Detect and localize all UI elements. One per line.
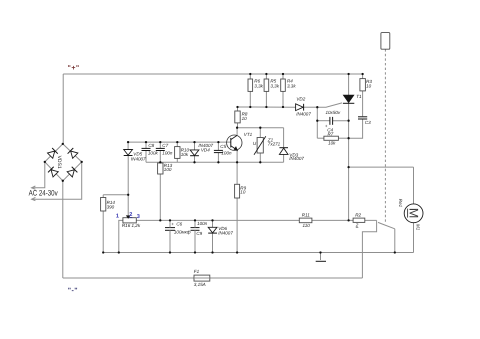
- svg-text:110: 110: [303, 223, 311, 228]
- wire left rail from plus corner down to bridge: [62, 74, 64, 144]
- svg-text:"-": "-": [68, 288, 78, 295]
- node Z1 bottom: [259, 161, 261, 163]
- wire top positive rail: [63, 73, 362, 75]
- diode VD6: [208, 220, 233, 252]
- node emitter: [236, 161, 238, 163]
- capacitor C6 electrolytic: [165, 220, 191, 252]
- svg-text:100n: 100n: [197, 221, 208, 226]
- node switch common: [394, 251, 396, 253]
- node R2 left: [347, 219, 349, 221]
- node VD5 top: [127, 141, 129, 143]
- svg-text:3,3k: 3,3k: [287, 83, 296, 88]
- node R14 bottom: [102, 251, 104, 253]
- node C4 left: [316, 120, 318, 122]
- svg-text:C5: C5: [220, 144, 226, 149]
- wire R3 to C3: [362, 91, 364, 116]
- wire bottom return with fuse: [63, 277, 363, 279]
- wire motor feed horizontal: [349, 166, 414, 168]
- bridge diode top-left: [47, 148, 57, 158]
- svg-text:3,3k: 3,3k: [270, 83, 279, 88]
- svg-text:M1: M1: [416, 224, 421, 231]
- svg-text:10: 10: [366, 83, 372, 88]
- wire emitter rail: [146, 161, 284, 163]
- svg-text:Re1: Re1: [398, 199, 403, 208]
- node R4 bottom: [282, 106, 284, 108]
- node R8 top: [236, 106, 238, 108]
- wire C3 bottom to node: [349, 119, 363, 138]
- svg-text:+: +: [171, 221, 174, 226]
- resistor R2: [353, 212, 365, 227]
- svg-text:100k: 100k: [148, 151, 159, 156]
- wire VT1 collector riser: [236, 128, 238, 136]
- wire Z1 top stub: [259, 128, 261, 138]
- svg-text:100n: 100n: [221, 151, 232, 156]
- wire R9 top from emitter rail: [236, 162, 238, 184]
- svg-text:10: 10: [242, 116, 248, 121]
- wire base rail: [128, 141, 231, 143]
- thyristor T1: [343, 94, 362, 103]
- capacitor C5: [214, 144, 232, 156]
- bridge edge top-left: [45, 144, 63, 162]
- wire R8 top stub: [237, 107, 239, 111]
- svg-text:7x271: 7x271: [268, 142, 281, 147]
- node R5 bottom: [265, 106, 267, 108]
- node C7 top: [159, 141, 161, 143]
- node bridge left: [44, 161, 46, 163]
- svg-text:VDS1: VDS1: [56, 156, 62, 169]
- node R9 bottom: [236, 251, 238, 253]
- wire R14 top stub: [102, 195, 104, 198]
- node R10 top: [176, 141, 178, 143]
- diode VD2: [296, 96, 312, 116]
- capacitor C8: [142, 143, 159, 155]
- svg-text:3,3k: 3,3k: [254, 83, 263, 88]
- wire pot pin1: [119, 220, 123, 252]
- node bridge right: [81, 161, 83, 163]
- wire R5 top stub: [265, 74, 267, 79]
- fuse F1: [194, 269, 210, 287]
- capacitor C9: [191, 220, 208, 252]
- svg-text:10k: 10k: [328, 141, 336, 146]
- capacitor C7: [156, 143, 173, 155]
- svg-text:390: 390: [107, 205, 115, 210]
- capacitor C4 electrolytic: [325, 110, 341, 133]
- node C6 top: [169, 219, 171, 221]
- node C9 top: [194, 219, 196, 221]
- wire R14 bottom to ground bus: [102, 211, 104, 253]
- wire VD2 cathode to node: [304, 106, 318, 108]
- node VD4 top: [193, 141, 195, 143]
- resistor R10: [175, 147, 190, 159]
- wire relay dashed mechanical link: [384, 49, 386, 222]
- wire C8 top stub: [145, 142, 147, 148]
- switch blade contact: [378, 222, 395, 228]
- transistor VT1: [227, 132, 253, 150]
- wire C7 bottom into R13: [159, 151, 161, 163]
- node bridge top: [62, 143, 64, 145]
- node motor tee: [347, 166, 349, 168]
- wire VD5 bottom down to R14 tee: [127, 156, 129, 195]
- bridge rectifier VDS1: [45, 144, 82, 181]
- resistor R9: [235, 184, 247, 198]
- wire collector rail: [237, 127, 284, 129]
- node R7 right: [347, 137, 349, 139]
- bridge edge bottom-right: [63, 162, 82, 181]
- node VD6 top: [211, 219, 213, 221]
- diode VD5: [124, 150, 146, 162]
- node VD6 bottom: [211, 251, 213, 253]
- svg-text:C8: C8: [148, 143, 154, 148]
- bridge diode bottom-left: [48, 167, 58, 177]
- svg-text:C3: C3: [365, 120, 371, 125]
- wire C5 bottom stub: [217, 153, 219, 163]
- node Z1 top: [259, 127, 261, 129]
- svg-text:100мкф: 100мкф: [174, 230, 191, 235]
- svg-text:3,15A: 3,15A: [194, 282, 206, 287]
- svg-text:M: M: [406, 208, 420, 218]
- node C6 bottom: [169, 251, 171, 253]
- svg-text:10: 10: [240, 190, 246, 195]
- node top rail R4: [282, 73, 284, 75]
- resistor R4: [281, 79, 297, 92]
- bridge edge bottom-left: [45, 162, 63, 181]
- resistor R7: [324, 131, 339, 145]
- resistor R14: [101, 198, 116, 212]
- svg-text:VD4: VD4: [201, 147, 210, 152]
- svg-text:10k: 10k: [181, 152, 189, 157]
- svg-text:100n: 100n: [162, 151, 173, 156]
- node top rail T1: [347, 73, 349, 75]
- wire Z1 bottom stub: [259, 153, 261, 162]
- node pot pin1 bottom: [118, 251, 120, 253]
- node top rail R3: [361, 73, 363, 75]
- svg-text:AC 24-30v: AC 24-30v: [29, 189, 58, 198]
- wire R4 top stub: [282, 74, 284, 79]
- wire R10 top stub: [176, 142, 178, 147]
- node C8 top: [145, 141, 147, 143]
- svg-text:F1: F1: [194, 269, 200, 274]
- wire R6 top stub: [249, 74, 251, 79]
- node R13 bottom: [159, 219, 161, 221]
- wire VD5 top stub: [127, 142, 129, 149]
- wire C8 bottom stub: [145, 151, 147, 163]
- wire R8 bottom stub: [237, 123, 239, 128]
- wire C4 left stub vertical: [316, 107, 318, 138]
- node VD4 bottom: [193, 161, 195, 163]
- wire motor bottom riser: [413, 223, 415, 253]
- svg-text:VD2: VD2: [296, 96, 305, 101]
- wire R3 top stub: [362, 74, 364, 79]
- wire C7 top stub: [159, 142, 161, 148]
- wire VD3 bottom stub: [283, 154, 285, 162]
- svg-text:IN4007: IN4007: [289, 156, 304, 161]
- node R6 bottom: [249, 106, 251, 108]
- wire C4 row right: [333, 120, 349, 122]
- wire VD3 top drop: [283, 128, 285, 148]
- ground symbol: [316, 253, 326, 262]
- svg-text:C9: C9: [196, 231, 202, 236]
- svg-text:3: 3: [137, 214, 140, 220]
- svg-text:IN4007: IN4007: [131, 157, 146, 162]
- wire T1 anode riser: [348, 74, 350, 95]
- wire C5 top stub: [217, 142, 219, 150]
- resistor R6: [248, 79, 264, 92]
- node ground: [319, 251, 321, 253]
- terminal arrow 2: [32, 197, 36, 200]
- node C4 right: [347, 120, 349, 122]
- relay armature box: [381, 33, 390, 50]
- wire R7 row left: [317, 137, 324, 139]
- resistor R13: [158, 163, 173, 174]
- svg-text:R2: R2: [355, 212, 361, 217]
- svg-text:R7: R7: [328, 131, 334, 136]
- wire R10 bottom stub: [176, 158, 178, 162]
- wire R5 bottom stub: [265, 91, 267, 107]
- svg-text:C6: C6: [176, 221, 182, 226]
- wire R14 tee to pot wiper: [127, 195, 129, 216]
- wire VT1 emitter drop: [236, 150, 238, 162]
- wire switch riser from bottom return: [362, 220, 376, 278]
- node bridge bottom: [62, 180, 64, 182]
- resistor R8: [235, 111, 248, 123]
- node C9 bottom: [194, 251, 196, 253]
- wire motor top riser: [413, 167, 415, 204]
- wire switch common riser: [394, 229, 396, 253]
- bridge edge top-right: [63, 144, 82, 162]
- wire R13 bottom to control rail: [159, 174, 161, 220]
- svg-text:VT1: VT1: [244, 132, 253, 137]
- svg-text:C7: C7: [162, 143, 168, 148]
- node C5 top: [217, 141, 219, 143]
- node C5 bottom: [217, 161, 219, 163]
- wire control rail pot pin3 to switch contact: [136, 219, 376, 221]
- wire AC input terminal 2: [32, 162, 82, 199]
- node R14 tee: [127, 194, 129, 196]
- wire bridge bottom vertex down to bottom return wire: [62, 181, 64, 278]
- svg-text:IN4007: IN4007: [218, 231, 233, 236]
- diode VD4: [190, 143, 213, 156]
- svg-text:T1: T1: [356, 94, 362, 99]
- wire thyristor gate: [317, 103, 342, 107]
- diode VD3: [279, 148, 304, 161]
- bridge diode top-right: [68, 148, 78, 158]
- wire R4 bottom stub: [282, 91, 284, 107]
- wire resistor bottom rail to VD2: [238, 106, 296, 108]
- varistor Z1: [253, 136, 281, 155]
- wire R7 row right: [338, 137, 348, 139]
- node gate junction: [316, 106, 318, 108]
- svg-text:2: 2: [355, 223, 359, 228]
- svg-text:R11: R11: [302, 212, 310, 217]
- wire T1 cathode main vertical: [348, 103, 350, 220]
- svg-text:"+": "+": [68, 65, 80, 72]
- wire R6 bottom stub: [249, 91, 251, 107]
- wire ground bus: [103, 252, 413, 254]
- node top rail R6: [249, 73, 251, 75]
- wire VD4 top stub: [194, 142, 196, 150]
- potentiometer R16: [116, 212, 141, 228]
- bridge diode bottom-right: [67, 167, 77, 177]
- terminal arrow 1: [32, 186, 36, 189]
- resistor R11: [299, 212, 312, 228]
- resistor R5: [264, 79, 280, 92]
- svg-text:10x50v: 10x50v: [326, 110, 341, 115]
- svg-text:2: 2: [129, 212, 132, 218]
- motor M1: [398, 199, 423, 231]
- capacitor C3: [358, 117, 371, 125]
- node collector: [236, 127, 238, 129]
- wire C4 row left: [317, 120, 329, 122]
- node top rail R5: [265, 73, 267, 75]
- wire AC input terminal 1: [32, 162, 45, 188]
- wire R9 bottom to ground bus: [236, 198, 238, 253]
- wire R14 branch horizontal: [103, 194, 128, 196]
- svg-text:100: 100: [164, 167, 172, 172]
- svg-text:1: 1: [116, 214, 119, 220]
- wire VD4 bottom stub: [194, 156, 196, 163]
- node R13 top: [159, 161, 161, 163]
- resistor R3: [360, 79, 372, 91]
- svg-text:R16 1,2k: R16 1,2k: [122, 223, 141, 228]
- svg-text:IN4007: IN4007: [296, 111, 311, 116]
